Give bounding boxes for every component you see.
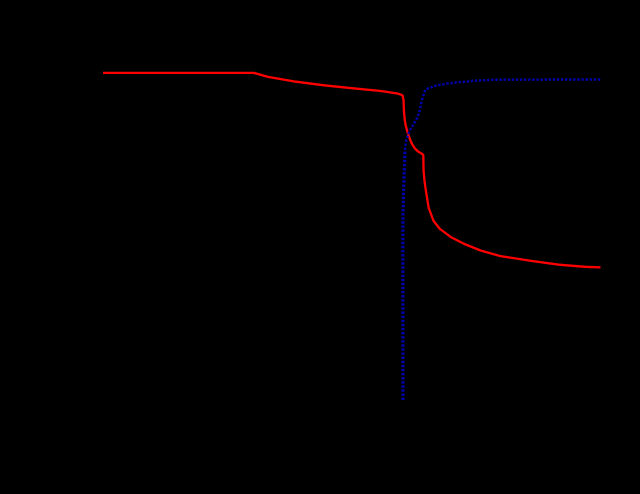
blue dotted curve vertical segment	[403, 150, 405, 400]
blue dotted curve bend and horizontal segment	[405, 80, 601, 151]
red solid curve	[103, 73, 601, 268]
